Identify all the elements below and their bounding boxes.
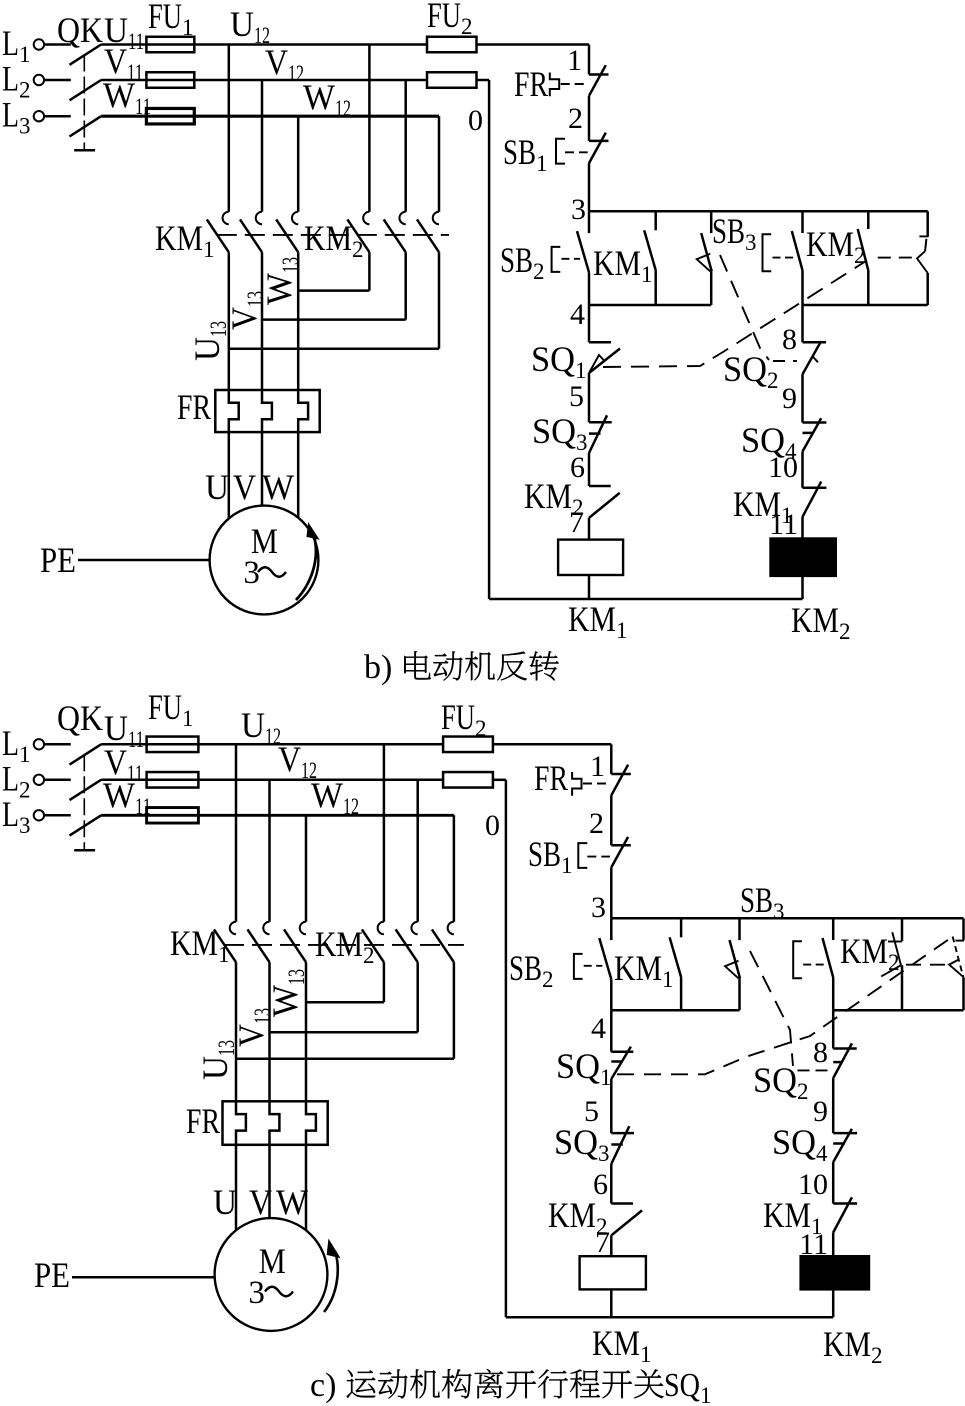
limit switch SQ1 NC contact bbox=[556, 1010, 633, 1133]
KM2 output crossover wires bbox=[229, 252, 439, 349]
contactor KM2 NC interlock bbox=[548, 1195, 642, 1256]
wire node4 left bbox=[589, 304, 711, 307]
net labels U11 V11 W11 bbox=[103, 10, 151, 119]
contactor KM1 NC interlock bbox=[733, 482, 826, 539]
svg-text:3: 3 bbox=[571, 193, 586, 226]
SQ1 mechanical link dashed bbox=[603, 261, 866, 367]
wire bottom bus bbox=[489, 598, 802, 601]
svg-text:QK: QK bbox=[57, 698, 103, 738]
svg-text:QK: QK bbox=[57, 10, 103, 50]
limit switch SQ1 NO contact bbox=[917, 211, 928, 305]
limit switch SQ3 NC contact bbox=[532, 411, 612, 486]
terminal L3 bbox=[2, 794, 71, 838]
limit switch SQ3 NC contact bbox=[554, 1122, 634, 1204]
start button SB2 NO bbox=[509, 918, 611, 1010]
svg-text:8: 8 bbox=[813, 1036, 828, 1069]
SQ1 linkage dashes right bbox=[906, 964, 947, 966]
svg-text:U: U bbox=[205, 467, 229, 507]
branch wires to KM contacts bbox=[236, 744, 454, 921]
wire node4 right bbox=[833, 1009, 963, 1012]
wires U13 V13 W13 bbox=[236, 962, 306, 1101]
svg-text:V: V bbox=[249, 1182, 272, 1222]
wire node4 right bbox=[803, 304, 928, 307]
contactor KM2 main contacts bbox=[304, 212, 439, 262]
wires to motor U V W bbox=[205, 432, 298, 518]
terminal L2 bbox=[2, 59, 71, 103]
contactor KM1 main contacts bbox=[170, 922, 306, 967]
svg-text:1: 1 bbox=[590, 750, 605, 783]
svg-text:8: 8 bbox=[782, 323, 797, 356]
thermal relay FR heaters bbox=[177, 387, 320, 432]
contactor coil KM1 bbox=[580, 1256, 652, 1367]
contactor coil KM2 energized filled bbox=[801, 1256, 883, 1368]
wire node3 bus bbox=[589, 210, 928, 213]
stop button SB1 NC bbox=[503, 132, 609, 211]
wires U13 V13 W13 bbox=[229, 252, 298, 390]
svg-text:2: 2 bbox=[568, 102, 583, 135]
svg-text:U: U bbox=[213, 1182, 237, 1222]
svg-text:0: 0 bbox=[468, 104, 483, 137]
svg-text:PE: PE bbox=[40, 540, 76, 580]
wire W row bbox=[101, 115, 439, 118]
ground wire PE bbox=[40, 540, 210, 580]
fuse group FU1 bbox=[147, 687, 199, 823]
wire neutral 0 bbox=[485, 780, 506, 1317]
start button SB3 NO bbox=[740, 880, 833, 1010]
ground wire PE bbox=[34, 1255, 215, 1295]
KM linkage dashed bbox=[224, 944, 464, 946]
svg-text:1: 1 bbox=[567, 44, 582, 77]
wire node8 drop bbox=[832, 1010, 835, 1048]
thermal relay FR NC contact bbox=[514, 64, 609, 141]
svg-text:b): b) bbox=[364, 649, 392, 686]
rotation arrow bbox=[324, 1251, 338, 1312]
net labels U12 V12 W12 bbox=[241, 705, 359, 819]
limit switch SQ1 NC contact bbox=[531, 305, 620, 422]
KM linkage dashed bbox=[217, 234, 449, 236]
contactor KM1 NC interlock bbox=[763, 1195, 857, 1256]
contactor KM2 NC interlock bbox=[524, 476, 620, 540]
contactor KM1 aux NO self-hold bbox=[614, 918, 681, 1010]
svg-text:5: 5 bbox=[569, 380, 584, 413]
svg-text:FR: FR bbox=[186, 1101, 220, 1141]
wires to motor U V W bbox=[213, 1145, 308, 1230]
svg-text:PE: PE bbox=[34, 1255, 70, 1295]
wire U row bbox=[101, 743, 443, 746]
wire U row bbox=[101, 43, 427, 46]
terminal L1 bbox=[2, 723, 71, 767]
start button SB3 NO bbox=[712, 211, 803, 305]
svg-text:FR: FR bbox=[514, 64, 548, 104]
svg-text:4: 4 bbox=[570, 298, 585, 331]
motor M 3~ bbox=[210, 506, 319, 615]
wire V row bbox=[101, 79, 427, 82]
svg-text:6: 6 bbox=[570, 451, 585, 484]
limit switch SQ4 NC contact bbox=[741, 418, 826, 488]
svg-text:3: 3 bbox=[591, 891, 606, 924]
svg-text:W: W bbox=[276, 1182, 308, 1222]
SQ2 mechanical link dashed bbox=[720, 255, 769, 360]
wire control feed bbox=[610, 744, 613, 774]
svg-text:3: 3 bbox=[248, 1275, 265, 1311]
contactor KM2 aux NO self-hold bbox=[840, 918, 902, 1010]
stop button SB1 NC bbox=[528, 834, 631, 918]
limit switch SQ2 NC contact bbox=[753, 1043, 857, 1133]
contactor coil KM2 energized filled bbox=[771, 539, 851, 645]
branch wires to KM contacts bbox=[229, 45, 439, 212]
SQ1 linkage dashes right bbox=[878, 257, 916, 259]
contactor KM2 main contacts bbox=[315, 922, 454, 968]
svg-text:V: V bbox=[233, 467, 256, 507]
motor M 3~ bbox=[215, 1218, 328, 1331]
svg-text:0: 0 bbox=[485, 809, 500, 842]
svg-text:4: 4 bbox=[591, 1012, 606, 1045]
thermal relay FR NC contact bbox=[534, 758, 631, 845]
contactor KM1 aux NO self-hold bbox=[593, 211, 656, 305]
thermal relay FR heaters bbox=[186, 1101, 328, 1145]
svg-text:W: W bbox=[262, 467, 294, 507]
wire node8 drop bbox=[801, 305, 804, 342]
net labels U12 V12 W12 bbox=[230, 4, 351, 121]
wire V row bbox=[101, 779, 443, 782]
KM2 output crossover wires bbox=[236, 962, 454, 1059]
fuse group FU2 bbox=[441, 697, 493, 788]
wire control feed bbox=[588, 45, 591, 75]
svg-text:FR: FR bbox=[177, 387, 211, 427]
limit switch SQ1 NO contact bbox=[949, 918, 964, 1010]
SQ1 mechanical link dashed bbox=[617, 937, 952, 1074]
wire node4 left bbox=[611, 1009, 739, 1012]
wire bottom bus bbox=[506, 1316, 833, 1319]
start button SB2 NO bbox=[500, 211, 589, 305]
rotation arrow bbox=[296, 534, 316, 600]
terminal L2 bbox=[2, 758, 71, 802]
terminal L1 bbox=[2, 23, 71, 67]
SQ2 mechanical link dashed bbox=[750, 951, 793, 1066]
contactor KM2 aux NO self-hold bbox=[806, 211, 868, 305]
svg-text:3: 3 bbox=[243, 555, 260, 591]
contactor coil KM1 bbox=[558, 540, 627, 643]
wire neutral 0 bbox=[468, 80, 489, 599]
limit switch SQ4 NC contact bbox=[772, 1122, 857, 1204]
limit switch SQ2 NC contact bbox=[723, 341, 826, 422]
svg-text:FR: FR bbox=[534, 758, 568, 798]
terminal L3 bbox=[2, 95, 71, 139]
net labels U13 V13 W13 rotated bbox=[195, 969, 309, 1080]
fuse group FU1 bbox=[146, 0, 194, 124]
svg-text:9: 9 bbox=[782, 382, 797, 415]
limit switch SQ2 NO contact bbox=[725, 918, 740, 1010]
svg-text:c): c) bbox=[310, 1367, 336, 1404]
net labels U13 V13 W13 rotated bbox=[187, 257, 303, 361]
switch QK bbox=[57, 10, 103, 150]
svg-text:2: 2 bbox=[589, 807, 604, 840]
switch QK bbox=[57, 698, 103, 850]
fuse group FU2 bbox=[427, 0, 477, 88]
net labels U11 V11 W11 bbox=[103, 708, 151, 819]
contactor KM1 main contacts bbox=[155, 212, 298, 262]
limit switch SQ2 NO contact bbox=[697, 211, 712, 305]
wire W row bbox=[101, 814, 454, 817]
wire node3 bus bbox=[611, 917, 963, 920]
